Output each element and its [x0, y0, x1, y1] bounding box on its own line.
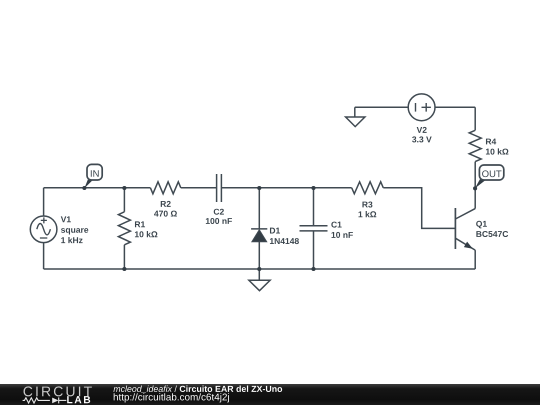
ground at D1 node: [249, 269, 270, 291]
wire top rail: [44, 187, 151, 189]
wire D1 bottom stub: [258, 242, 260, 269]
wire R4 top stub: [474, 107, 476, 130]
diode D1: [251, 229, 267, 242]
logo resistor-diode glyph: [23, 397, 67, 403]
label R3 value: [359, 201, 377, 217]
wire C2 to R3: [221, 187, 351, 189]
wire D1 top stub: [258, 188, 260, 230]
label V1 value: [61, 216, 89, 243]
wire R1 bottom stub: [123, 245, 125, 269]
wire V1 bottom stub: [43, 243, 45, 269]
label D1 value: [270, 228, 299, 244]
node IN flag: [84, 164, 102, 188]
resistor R2: [150, 182, 180, 194]
wire Q1 collector stub: [474, 188, 476, 208]
wire Q1 emitter stub: [474, 250, 476, 269]
junction R1 bottom: [122, 267, 126, 271]
wire bottom rail: [44, 268, 476, 270]
CircuitLab logo wordmark: [24, 386, 92, 403]
voltage source V2: [408, 94, 435, 121]
junction R1 top: [122, 186, 126, 190]
node OUT flag: [475, 165, 504, 188]
label C2 value: [206, 209, 232, 224]
junction D1 top: [257, 186, 261, 190]
junction D1 bottom: [257, 267, 261, 271]
transistor Q1: [455, 208, 475, 250]
junction C1 top: [311, 186, 315, 190]
capacitor C2: [217, 174, 222, 202]
ground at V2 negative: [346, 107, 365, 126]
wire C1 bottom stub: [313, 231, 315, 269]
footer url text: [114, 393, 229, 402]
footer attribution text: [113, 386, 282, 403]
resistor R3: [352, 182, 384, 194]
footer bar: [0, 384, 540, 405]
wire R3 to Q1 base: [383, 188, 455, 229]
wire V2 right rail: [435, 106, 475, 108]
wire R1 top stub: [123, 188, 125, 212]
capacitor C1: [300, 226, 328, 231]
label R2 value: [154, 201, 177, 217]
junction C1 bottom: [311, 267, 315, 271]
resistor R1: [118, 212, 130, 245]
wire R4 bottom stub: [474, 162, 476, 189]
wire R2 to C2: [181, 187, 217, 189]
resistor R4: [469, 130, 481, 161]
label R4 value: [486, 139, 508, 155]
label C1 value: [331, 222, 353, 238]
label V2 value: [412, 127, 432, 143]
label Q1 value: [476, 221, 508, 237]
wire C1 top stub: [313, 188, 315, 226]
wire V1 top stub: [43, 188, 45, 216]
voltage source V1: [30, 216, 57, 243]
junction OUT node: [473, 186, 477, 190]
wire V2 left rail: [355, 106, 408, 108]
junction IN node: [82, 186, 86, 190]
label R1 value: [135, 221, 157, 237]
